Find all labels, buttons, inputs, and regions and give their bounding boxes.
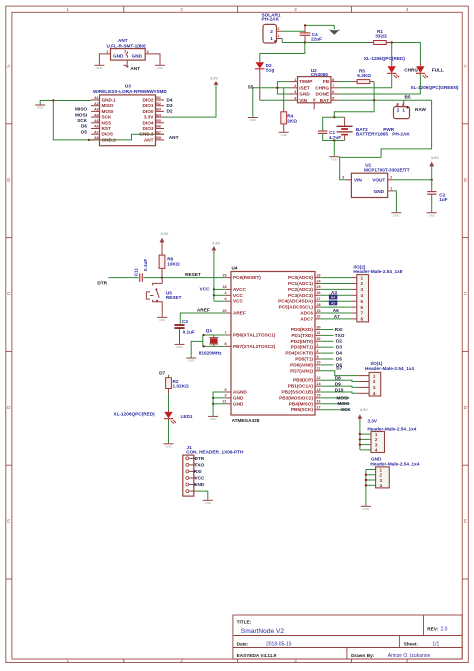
svg-text:VCC: VCC (200, 286, 211, 292)
svg-text:A3: A3 (94, 108, 99, 112)
wire loop to D2 (260, 43, 305, 63)
svg-text:3: 3 (147, 50, 149, 54)
svg-text:U.FL-R-SMT-1(80): U.FL-R-SMT-1(80) (106, 43, 145, 48)
capacitor C1 parallel loop (318, 117, 341, 140)
svg-text:D7: D7 (336, 366, 342, 371)
svg-text:A5: A5 (331, 301, 336, 305)
svg-text:31: 31 (317, 331, 321, 335)
svg-text:2KΩ: 2KΩ (287, 119, 297, 124)
wire TEMP loop (277, 82, 290, 94)
net labels right of U3 (167, 97, 179, 140)
svg-text:PC6(RESET): PC6(RESET) (233, 275, 261, 280)
svg-text:GND: GND (374, 189, 385, 194)
svg-text:TXO: TXO (195, 463, 205, 468)
svg-text:14: 14 (317, 388, 321, 392)
svg-text:VCC: VCC (233, 293, 244, 298)
svg-text:A7: A7 (334, 314, 340, 319)
svg-text:18: 18 (223, 285, 227, 289)
svg-text:3.3V: 3.3V (160, 232, 168, 236)
svg-text:RXI: RXI (335, 327, 343, 332)
svg-text:19: 19 (317, 309, 321, 313)
svg-text:PB1(OC1A): PB1(OC1A) (288, 384, 314, 389)
svg-text:30: 30 (317, 325, 321, 329)
svg-text:29: 29 (223, 273, 227, 277)
svg-text:B5: B5 (405, 94, 411, 99)
wire VOUT to 3.3V and C2 (394, 179, 432, 181)
wire down to A8 (53, 101, 91, 140)
svg-text:8: 8 (332, 78, 334, 82)
svg-text:GND: GND (428, 213, 434, 217)
power flag 3.3V at U1 (429, 156, 439, 166)
wires D8-D10 to I/O(1) (320, 380, 358, 381)
svg-text:ATMEGA328: ATMEGA328 (232, 418, 260, 423)
svg-text:3: 3 (225, 394, 227, 398)
svg-text:A6: A6 (333, 308, 339, 313)
svg-text:10KΩ: 10KΩ (167, 261, 180, 266)
wire 3.3V rail to header pins (359, 420, 361, 450)
svg-text:PD6(AIN0): PD6(AIN0) (290, 362, 313, 367)
svg-text:U4: U4 (232, 265, 238, 270)
svg-text:1uF: 1uF (439, 197, 447, 202)
svg-text:7: 7 (361, 311, 364, 316)
svg-text:1: 1 (270, 36, 273, 41)
svg-text:A4: A4 (94, 113, 99, 117)
svg-text:1: 1 (106, 50, 108, 54)
resistor R1 (369, 29, 391, 44)
svg-text:3: 3 (294, 90, 296, 94)
svg-text:Header-Male-2.54_1x8: Header-Male-2.54_1x8 (353, 269, 402, 274)
svg-text:GND: GND (393, 213, 399, 217)
node junction on A1 wire (52, 99, 54, 101)
net labels left of U3 (75, 107, 88, 135)
svg-text:0.1uF: 0.1uF (183, 330, 195, 335)
svg-text:GND: GND (113, 54, 124, 59)
ground under U4 (208, 416, 218, 421)
resonator Q1 wires (203, 335, 226, 346)
svg-text:GND: GND (233, 401, 244, 406)
svg-text:GND: GND (194, 482, 205, 487)
svg-text:EASYEDA V4.11.9: EASYEDA V4.11.9 (237, 653, 277, 658)
svg-text:0.1uF: 0.1uF (143, 259, 148, 271)
ground under J1 (203, 500, 213, 505)
wire DONE row to FULL LED (339, 93, 421, 95)
wire DTR to C11 (108, 277, 138, 279)
svg-text:6.2KΩ: 6.2KΩ (357, 73, 371, 78)
svg-text:TEMP: TEMP (299, 79, 312, 84)
svg-text:PB0(ICP): PB0(ICP) (293, 378, 313, 383)
svg-text:1: 1 (278, 34, 280, 38)
svg-text:MOSI: MOSI (102, 109, 114, 114)
svg-text:PB5(SCK): PB5(SCK) (291, 407, 314, 412)
wire GND to A1 (40, 101, 91, 105)
ground under Q1 (186, 358, 196, 363)
svg-text:9: 9 (317, 355, 319, 359)
svg-text:DTR: DTR (195, 456, 205, 461)
svg-text:DIO2: DIO2 (143, 98, 154, 103)
svg-text:B3: B3 (156, 108, 161, 112)
svg-text:PH-2AK: PH-2AK (392, 132, 410, 137)
svg-text:LED1: LED1 (181, 414, 193, 419)
svg-text:PD3(INT1): PD3(INT1) (291, 345, 314, 350)
svg-text:GND.3: GND.3 (139, 132, 154, 137)
svg-text:2: 2 (317, 349, 319, 353)
svg-text:PD4(XCKT0): PD4(XCKT0) (285, 351, 313, 356)
svg-text:A7: A7 (94, 130, 99, 134)
pin 2 shield squiggle (126, 52, 127, 58)
svg-text:SCK: SCK (341, 407, 352, 412)
svg-text:VCC: VCC (195, 476, 206, 481)
node C4 top (304, 24, 306, 26)
svg-text:ISET: ISET (299, 85, 310, 90)
ground under U5 (157, 317, 167, 322)
power flag 3.3V header (358, 414, 363, 421)
svg-text:PC4(ADC4SDA): PC4(ADC4SDA) (278, 299, 313, 304)
ground flag (signal gnd triangle) (329, 29, 340, 34)
ground under R4 (279, 132, 289, 137)
svg-text:26: 26 (317, 291, 321, 295)
wire ISET row with 55 net (253, 88, 290, 117)
svg-text:SmartNode V2: SmartNode V2 (241, 628, 285, 635)
svg-text:PC0(ADC0): PC0(ADC0) (288, 275, 313, 280)
svg-text:REV:: REV: (427, 626, 438, 631)
svg-text:C11: C11 (133, 268, 138, 277)
svg-text:B5: B5 (156, 119, 161, 123)
svg-text:25: 25 (317, 285, 321, 289)
svg-text:XL-1206QPC(RED): XL-1206QPC(RED) (114, 412, 156, 417)
svg-text:GND: GND (280, 133, 286, 137)
svg-text:A4: A4 (331, 296, 336, 300)
svg-text:MOSI: MOSI (75, 112, 87, 117)
svg-text:ADC7: ADC7 (300, 316, 313, 321)
svg-text:E: E (464, 519, 467, 524)
svg-text:ANT: ANT (169, 135, 179, 140)
svg-text:1: 1 (294, 78, 296, 82)
svg-text:ANT: ANT (144, 137, 154, 142)
svg-text:1: 1 (373, 373, 376, 378)
svg-text:B4: B4 (156, 113, 161, 117)
svg-text:Q1: Q1 (206, 328, 213, 333)
svg-text:C3: C3 (182, 319, 188, 324)
svg-text:GND: GND (331, 157, 337, 161)
svg-text:GND: GND (37, 106, 43, 110)
svg-text:B8: B8 (156, 136, 161, 140)
wire battery branch (334, 100, 374, 117)
svg-text:AREF: AREF (233, 311, 246, 316)
svg-text:DIO3: DIO3 (143, 126, 154, 131)
svg-text:Header-Male-2.54_1x4: Header-Male-2.54_1x4 (365, 366, 414, 371)
svg-text:2: 2 (397, 107, 400, 112)
svg-text:1: 1 (361, 275, 364, 280)
svg-text:D4: D4 (167, 97, 173, 102)
wire A8 GND.2 to B7 GND.3 through body (89, 134, 164, 140)
LED1 XL-1206QPC(RED) (164, 410, 176, 444)
svg-text:6: 6 (361, 305, 364, 310)
svg-text:GND: GND (205, 501, 211, 505)
node C4 bottom (304, 41, 306, 43)
svg-text:4: 4 (380, 483, 383, 488)
svg-text:2: 2 (270, 29, 273, 34)
svg-text:1: 1 (67, 658, 70, 663)
svg-text:VIN: VIN (354, 178, 362, 183)
ground under LED1 (164, 444, 174, 449)
wire CHRG row to LED (339, 87, 392, 89)
svg-text:11: 11 (317, 367, 321, 371)
svg-text:GND: GND (188, 359, 194, 363)
svg-text:D9: D9 (335, 381, 341, 386)
svg-text:4.7uF: 4.7uF (329, 135, 341, 140)
svg-text:DIO4: DIO4 (143, 120, 154, 125)
wire VIN row (260, 99, 290, 101)
ground under 55 wire (248, 118, 258, 123)
svg-text:2: 2 (278, 27, 280, 31)
svg-text:Sheet:: Sheet: (404, 642, 419, 647)
svg-text:AGND: AGND (233, 390, 247, 395)
svg-text:VCC: VCC (233, 299, 244, 304)
diode D2 (255, 62, 274, 100)
svg-text:D2: D2 (336, 339, 342, 344)
svg-text:B: B (7, 177, 10, 182)
svg-text:7: 7 (332, 84, 334, 88)
svg-text:Arinze O. Izukanne: Arinze O. Izukanne (388, 653, 431, 659)
svg-text:NSS: NSS (102, 120, 112, 125)
svg-text:Drawn By:: Drawn By: (351, 653, 375, 658)
wires MOSI/MISO/SCK (320, 398, 349, 410)
svg-text:MOSI: MOSI (337, 395, 349, 400)
svg-text:2: 2 (294, 84, 296, 88)
svg-text:D6: D6 (81, 124, 87, 129)
svg-text:TITLE:: TITLE: (237, 619, 252, 624)
svg-text:GND: GND (132, 54, 143, 59)
svg-text:4: 4 (375, 448, 378, 453)
svg-text:RAW: RAW (415, 107, 427, 112)
svg-text:3: 3 (342, 176, 344, 180)
svg-text:FULL: FULL (432, 68, 444, 73)
wire solar pin1 riser (281, 39, 283, 43)
connector ANT labels (106, 38, 145, 48)
svg-text:PC1(ADC1): PC1(ADC1) (288, 281, 313, 286)
svg-text:1: 1 (402, 107, 405, 112)
svg-text:2: 2 (180, 7, 183, 12)
svg-text:A2: A2 (94, 102, 99, 106)
svg-text:15: 15 (317, 394, 321, 398)
svg-text:A6: A6 (94, 125, 99, 129)
svg-text:GND: GND (363, 507, 369, 511)
wire resonator gnd (191, 341, 203, 357)
svg-text:7: 7 (225, 331, 227, 335)
svg-text:2018-05-15: 2018-05-15 (266, 642, 292, 648)
svg-text:SCK: SCK (77, 118, 88, 123)
connector SOLAR1 body (263, 24, 277, 43)
svg-text:GND.1: GND.1 (102, 98, 117, 103)
capacitor C3 (174, 319, 195, 344)
svg-text:PB2(SSOC1B): PB2(SSOC1B) (281, 390, 313, 395)
svg-text:GND: GND (96, 66, 102, 70)
svg-text:GND.2: GND.2 (102, 137, 117, 142)
svg-text:AREF: AREF (197, 307, 210, 312)
capacitor C2 (427, 180, 447, 212)
svg-text:D4: D4 (336, 351, 342, 356)
svg-text:5: 5 (225, 388, 227, 392)
svg-text:32: 32 (317, 337, 321, 341)
header GND body (376, 467, 390, 488)
svg-text:E: E (7, 519, 10, 524)
svg-text:PC2(ADC2): PC2(ADC2) (288, 287, 313, 292)
svg-text:D3: D3 (167, 103, 173, 108)
svg-text:PB7(XTAL2TOSC2): PB7(XTAL2TOSC2) (233, 344, 276, 349)
svg-text:2: 2 (180, 658, 183, 663)
svg-text:GND: GND (299, 92, 310, 97)
svg-text:GND: GND (210, 417, 216, 421)
svg-text:PD1(TXD): PD1(TXD) (291, 333, 313, 338)
svg-text:RESET: RESET (185, 272, 201, 277)
wire U1 GND pin to ground (394, 191, 397, 212)
svg-text:PD7(AIN1): PD7(AIN1) (290, 368, 313, 373)
svg-text:22uF: 22uF (311, 37, 322, 42)
svg-text:4: 4 (361, 293, 364, 298)
capacitor C4 (300, 25, 322, 42)
wire BAT row to RAW (339, 99, 432, 101)
pin 2 lead + ANT net label (126, 60, 128, 68)
ground under GND header (361, 506, 371, 511)
svg-text:3: 3 (373, 385, 376, 390)
svg-text:23: 23 (317, 273, 321, 277)
svg-text:5: 5 (361, 299, 364, 304)
resistor R6 pullup (159, 250, 180, 278)
svg-text:PH-2AK: PH-2AK (262, 17, 280, 22)
resistor R2 (166, 378, 189, 393)
svg-text:6: 6 (225, 297, 227, 301)
ground under C3 (175, 344, 185, 349)
svg-text:Date:: Date: (237, 642, 249, 647)
svg-text:1.02KΩ: 1.02KΩ (173, 384, 190, 389)
svg-text:FB: FB (323, 79, 330, 84)
svg-text:DIO1: DIO1 (143, 103, 154, 108)
ground at ANT pin1 (94, 65, 104, 70)
svg-text:4: 4 (294, 96, 296, 100)
svg-text:10: 10 (317, 361, 321, 365)
svg-text:3.3V: 3.3V (144, 115, 155, 120)
svg-text:3.3V: 3.3V (212, 241, 220, 245)
svg-text:22: 22 (317, 315, 321, 319)
svg-text:B2: B2 (156, 102, 161, 106)
svg-text:DIO0: DIO0 (143, 109, 154, 114)
pushbutton U5 RESET (146, 278, 181, 317)
svg-text:8: 8 (361, 317, 364, 322)
svg-text:S1g: S1g (266, 68, 275, 73)
svg-text:ADC6: ADC6 (300, 311, 313, 316)
svg-text:CON_HEADER_1X06-PTH: CON_HEADER_1X06-PTH (186, 450, 244, 455)
svg-text:4: 4 (373, 391, 376, 396)
svg-text:PB6(XTAL1TOSC1): PB6(XTAL1TOSC1) (233, 333, 276, 338)
wire battery node to ground (333, 141, 335, 157)
ground at ANT pin3 (155, 65, 165, 70)
wires RXI..D6 stubs with labels (320, 330, 333, 365)
resistor R5 (339, 68, 375, 83)
svg-text:PB3(MOSIOC2): PB3(MOSIOC2) (279, 395, 313, 400)
svg-text:2: 2 (124, 50, 126, 54)
svg-text:3: 3 (361, 287, 364, 292)
ground at LoRa A1 (35, 105, 45, 110)
svg-text:55: 55 (248, 84, 254, 89)
svg-text:16: 16 (317, 400, 321, 404)
svg-text:4: 4 (225, 291, 227, 295)
svg-text:A1: A1 (94, 96, 99, 100)
svg-text:1: 1 (375, 432, 378, 437)
svg-text:ANT: ANT (130, 66, 140, 71)
wire RAW staircase to U1 VIN (340, 100, 432, 180)
svg-text:PD0(RXD): PD0(RXD) (291, 327, 314, 332)
svg-text:RST: RST (102, 126, 112, 131)
resistor R4 (281, 107, 297, 132)
svg-text:3.3V: 3.3V (431, 156, 439, 160)
LED FULL XL-1206QPC(GREEN) (416, 63, 428, 94)
crystal resonator Q1 (199, 328, 222, 355)
svg-text:8: 8 (225, 342, 227, 346)
svg-text:RESET: RESET (166, 295, 182, 300)
svg-text:XL-1206QPC(GREEN): XL-1206QPC(GREEN) (411, 85, 459, 90)
svg-text:GND: GND (157, 66, 163, 70)
svg-text:13: 13 (317, 382, 321, 386)
svg-text:81620MHz: 81620MHz (199, 350, 222, 355)
svg-text:AVCC: AVCC (233, 287, 247, 292)
svg-text:MISO: MISO (75, 107, 87, 112)
svg-text:1: 1 (380, 467, 383, 472)
svg-text:RXI: RXI (194, 469, 202, 474)
node junction at A8 (88, 139, 90, 141)
svg-text:Header-Male-2.54_1x4: Header-Male-2.54_1x4 (367, 427, 416, 432)
svg-text:6: 6 (332, 90, 334, 94)
svg-text:17: 17 (317, 406, 321, 410)
svg-text:2: 2 (373, 379, 376, 384)
svg-text:GND: GND (176, 345, 182, 349)
svg-text:U3: U3 (125, 83, 131, 88)
svg-text:2: 2 (396, 103, 398, 107)
svg-text:CHRG: CHRG (404, 68, 418, 73)
svg-text:1: 1 (67, 7, 70, 12)
wire top net to gnd flag (305, 25, 334, 29)
power flag 3.3V at U3 (210, 77, 218, 85)
svg-text:1: 1 (402, 103, 404, 107)
wire R4 branch (283, 88, 285, 107)
svg-text:PD2(INT0): PD2(INT0) (291, 339, 314, 344)
svg-text:332Ω: 332Ω (375, 34, 387, 39)
svg-text:B: B (464, 177, 467, 182)
connector ANT body (111, 49, 146, 61)
left pin stubs (226, 278, 231, 404)
wire U3 3.3V B4 (164, 85, 216, 117)
LED CHRG XL-1206QPC(RED) (387, 63, 399, 88)
svg-text:CHRG: CHRG (315, 85, 329, 90)
svg-text:VOUT: VOUT (372, 178, 385, 183)
svg-text:B7: B7 (156, 130, 161, 134)
ground under C2 (427, 213, 437, 218)
svg-text:3.3V: 3.3V (360, 408, 368, 412)
svg-text:21: 21 (223, 400, 227, 404)
svg-text:GND: GND (159, 318, 165, 322)
svg-text:2: 2 (361, 281, 364, 286)
svg-text:DTR: DTR (97, 280, 107, 285)
right pin stubs (315, 278, 320, 410)
svg-text:Header-Male-2.54_1x4: Header-Male-2.54_1x4 (370, 462, 419, 467)
svg-text:1: 1 (317, 343, 319, 347)
svg-text:1/1: 1/1 (432, 642, 439, 648)
svg-text:12: 12 (317, 376, 321, 380)
svg-text:WIRELESS-LORA-RFM95W#SMD: WIRELESS-LORA-RFM95W#SMD (93, 89, 167, 94)
capacitor C11 (133, 259, 148, 282)
svg-text:PC3(ADC3): PC3(ADC3) (288, 293, 313, 298)
svg-text:PC5(ADC5SCL): PC5(ADC5SCL) (279, 305, 314, 310)
svg-text:5: 5 (332, 96, 334, 100)
